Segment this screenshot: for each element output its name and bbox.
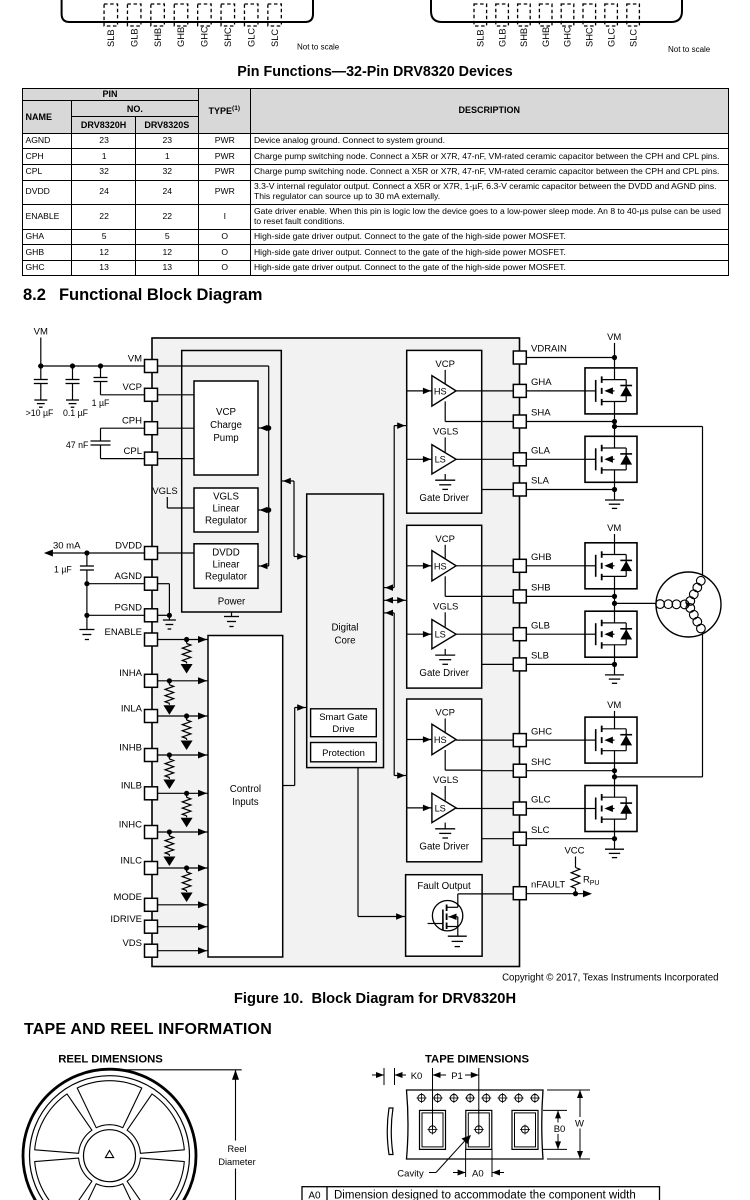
svg-text:Smart Gate: Smart Gate: [319, 712, 368, 723]
svg-text:GLB: GLB: [531, 620, 550, 631]
wire DVDD internal: [158, 552, 195, 554]
wire into LS (C): [407, 805, 432, 812]
svg-text:A0: A0: [472, 1169, 484, 1180]
pin DVDD: [115, 540, 157, 559]
wire LS output to GL pin: [456, 808, 513, 810]
ground (fault MOSFET): [448, 936, 467, 946]
sprocket holes: [417, 1093, 540, 1103]
wire VDRAIN to VM: [526, 357, 614, 359]
pulldown resistor (ENABLE): [181, 640, 193, 674]
svg-text:IDRIVE: IDRIVE: [110, 914, 142, 925]
svg-text:Gate Driver: Gate Driver: [419, 842, 469, 853]
wire HS output to GH pin: [456, 390, 513, 392]
svg-text:SHB: SHB: [531, 583, 551, 594]
wire GLC to Q6 gate: [526, 808, 585, 810]
svg-text:SLC: SLC: [628, 29, 638, 47]
svg-text:DVDD: DVDD: [212, 548, 239, 559]
svg-text:INLA: INLA: [121, 703, 143, 714]
svg-text:INLC: INLC: [120, 855, 142, 866]
pin pad GLB (U1): [127, 4, 141, 26]
svg-text:AGND: AGND: [115, 571, 143, 582]
wire HS to SH node (A): [445, 401, 482, 421]
svg-text:SLB: SLB: [531, 651, 549, 662]
wire INLA to control inputs: [158, 713, 209, 720]
pin GHA: [513, 377, 552, 397]
pin label SHC (U2): [585, 27, 595, 47]
LS driver amp (C): [432, 793, 456, 822]
package outline U1 (32-pin VQFN, bottom edge): [62, 0, 313, 22]
svg-text:VCP: VCP: [122, 382, 142, 393]
svg-text:REEL DIMENSIONS: REEL DIMENSIONS: [58, 1054, 163, 1066]
svg-text:Fault Output: Fault Output: [417, 881, 471, 892]
wire SLA / ground (A): [526, 482, 624, 508]
svg-text:GLC: GLC: [531, 795, 551, 806]
svg-text:SLB: SLB: [476, 29, 486, 47]
wire into LS (B): [407, 631, 432, 638]
ground (LS C): [435, 823, 455, 838]
svg-text:SLC: SLC: [531, 825, 550, 836]
wire VM internal rail to regulators: [158, 366, 272, 566]
VCP charge pump block: [194, 381, 258, 475]
svg-text:Gate Driver: Gate Driver: [419, 668, 469, 679]
pin nFAULT: [513, 879, 565, 899]
svg-text:Diameter: Diameter: [218, 1157, 255, 1167]
pin VDS: [122, 938, 157, 957]
capacitor C1 >10 uF: [26, 366, 54, 418]
wire into DVDD regulator: [258, 563, 269, 570]
svg-text:Reel: Reel: [228, 1144, 247, 1154]
pin pad SHC (U2): [583, 4, 596, 26]
wire IDRIVE to control inputs: [158, 923, 209, 930]
capacitor C3 1 uF (VM to VCP): [92, 366, 110, 408]
pin INLB: [121, 781, 158, 800]
wire SH sense: [482, 595, 514, 597]
wire CPH: [101, 428, 145, 441]
wire DVDD 30 mA output: [44, 541, 145, 557]
power MOSFET Q5 (high-side C): [585, 717, 637, 763]
pin label GLC (U2): [606, 28, 616, 47]
HS driver amp (C): [432, 724, 456, 755]
reel drawing: [23, 1069, 196, 1200]
wire HS to SH node (B): [445, 576, 482, 596]
wire AGND/PGND internal: [158, 584, 172, 620]
svg-text:nFAULT: nFAULT: [531, 879, 565, 890]
wire GLA to Q2 gate: [526, 458, 585, 460]
net label VGLS with wire: [152, 486, 194, 508]
power block: [182, 351, 282, 613]
svg-text:GLC: GLC: [246, 28, 256, 47]
gate driver block A: [407, 350, 482, 513]
svg-text:Gate Driver: Gate Driver: [419, 493, 469, 504]
svg-text:LS: LS: [435, 455, 446, 465]
svg-text:INHC: INHC: [119, 819, 142, 830]
wire CPL pin internal: [158, 458, 195, 460]
pin label GLB (U1): [129, 28, 139, 47]
wire VDS to control inputs: [158, 947, 209, 954]
pin SLA: [513, 476, 549, 496]
wire SL sense: [482, 838, 514, 840]
pin GLB: [513, 620, 550, 640]
svg-text:PU: PU: [590, 880, 600, 887]
pin pad GHB (U1): [174, 4, 188, 26]
svg-text:VM: VM: [128, 353, 142, 364]
svg-text:1 µF: 1 µF: [54, 565, 72, 575]
motor (3-phase BLDC): [656, 572, 721, 637]
wire protection to fault output: [358, 768, 406, 920]
capacitor C2 0.1 uF: [63, 366, 89, 418]
cavity 1: [420, 1110, 446, 1149]
package outline U2 (HTSSOP, bottom edge): [431, 0, 682, 22]
dimension P1: [433, 1068, 479, 1130]
LS driver amp (B): [432, 620, 456, 649]
ground (C2): [66, 400, 79, 407]
pin AGND: [115, 571, 158, 590]
wire LS output to GL pin: [456, 633, 513, 635]
net label VGLS (B): [433, 601, 458, 627]
svg-text:VDS: VDS: [122, 938, 142, 949]
pin PGND: [115, 603, 158, 622]
svg-text:Charge: Charge: [210, 420, 242, 431]
wire into VGLS regulator: [258, 507, 269, 514]
svg-text:K0: K0: [411, 1071, 423, 1082]
net label VCP (B): [435, 534, 455, 559]
svg-text:W: W: [575, 1119, 584, 1130]
svg-text:Digital: Digital: [332, 623, 359, 634]
net label VCP (A): [435, 359, 455, 384]
pulldown resistor (INLB): [181, 793, 193, 827]
ground (LS B): [435, 649, 455, 664]
wire INLB to control inputs: [158, 790, 209, 797]
wire SH sense: [482, 421, 514, 423]
capacitor C5 1 uF (DVDD): [54, 553, 94, 630]
LS driver amp (A): [432, 445, 456, 474]
svg-text:GHA: GHA: [531, 377, 552, 388]
motor coil phase A: [686, 576, 705, 605]
wire fault drain to nFAULT: [458, 893, 513, 895]
wire GHB to Q3 gate: [526, 565, 585, 567]
pin SLB: [513, 651, 549, 671]
svg-text:TAPE DIMENSIONS: TAPE DIMENSIONS: [425, 1054, 529, 1066]
svg-text:GLA: GLA: [531, 446, 551, 457]
svg-text:Regulator: Regulator: [205, 516, 248, 527]
open-drain MOSFET Q7 (fault): [428, 894, 463, 936]
svg-text:30 mA: 30 mA: [53, 541, 81, 552]
wire INLC to control inputs: [158, 865, 209, 872]
dimension K0: [372, 1068, 422, 1085]
wire MODE to control inputs: [158, 901, 209, 908]
pin VDRAIN: [513, 344, 567, 364]
pin label SLB (U2): [476, 29, 486, 47]
DVDD linear regulator block: [194, 544, 258, 589]
HS driver amp (A): [432, 376, 456, 407]
pin label SLB (U1): [106, 29, 116, 47]
wire GHA to Q1 gate: [526, 390, 585, 392]
wire control inputs to digital core: [283, 704, 307, 785]
pin SHB: [513, 583, 550, 603]
pin pad GLC (U2): [605, 4, 618, 26]
svg-text:VDRAIN: VDRAIN: [531, 344, 567, 355]
svg-text:GLC: GLC: [606, 28, 616, 47]
wire GHC to Q5 gate: [526, 739, 585, 741]
pin label SHB (U2): [519, 28, 529, 47]
wire power to digital core: [281, 478, 306, 560]
svg-text:VGLS: VGLS: [433, 426, 458, 437]
net label VCP (C): [435, 708, 455, 733]
svg-text:1 µF: 1 µF: [92, 398, 110, 408]
HS driver amp (B): [432, 551, 456, 582]
power MOSFET Q3 (high-side B): [585, 543, 637, 589]
fault output block: [406, 875, 483, 957]
ground (LS A): [435, 474, 455, 489]
pin pad SLB (U2): [474, 4, 487, 26]
svg-text:GHC: GHC: [200, 26, 210, 47]
svg-text:Control: Control: [230, 784, 261, 795]
svg-text:SLB: SLB: [106, 29, 116, 47]
wire VCP: [101, 394, 145, 396]
pin VCP: [122, 382, 157, 401]
tape body: [407, 1090, 544, 1159]
svg-text:Core: Core: [335, 636, 356, 647]
gate driver block C: [407, 699, 482, 862]
svg-text:Power: Power: [218, 597, 246, 608]
dimension W: [547, 1090, 590, 1159]
wire HS to SH node (C): [445, 750, 482, 770]
pin GLC: [513, 795, 550, 815]
svg-text:>10 µF: >10 µF: [26, 408, 54, 418]
pin label GLC (U1): [246, 28, 256, 47]
pin IDRIVE: [110, 914, 157, 933]
power MOSFET Q6 (low-side C): [585, 786, 637, 832]
wire HS output to GH pin: [456, 739, 513, 741]
svg-text:VCP: VCP: [435, 359, 455, 370]
wire digital core to gate driver A: [384, 422, 407, 590]
svg-text:Linear: Linear: [213, 504, 241, 515]
ground (AGND/PGND internal): [163, 620, 176, 629]
pin pad SHB (U2): [518, 4, 531, 26]
power MOSFET Q2 (low-side A): [585, 436, 637, 482]
A0 definition row: [302, 1187, 660, 1200]
wire AGND external: [84, 581, 144, 586]
svg-text:47 nF: 47 nF: [66, 440, 89, 450]
svg-text:SHC: SHC: [223, 27, 233, 47]
svg-text:INHA: INHA: [119, 668, 142, 679]
svg-text:Pump: Pump: [213, 433, 238, 444]
svg-text:Copyright © 2017, Texas Instru: Copyright © 2017, Texas Instruments Inco…: [502, 973, 718, 984]
svg-text:LS: LS: [435, 630, 446, 640]
svg-text:SHA: SHA: [531, 408, 551, 419]
wire CPH pin internal: [158, 427, 195, 429]
svg-text:VM: VM: [34, 327, 48, 338]
svg-text:SHC: SHC: [585, 27, 595, 47]
svg-text:SLA: SLA: [531, 476, 550, 487]
wire INHA to control inputs: [158, 677, 209, 684]
svg-text:Dimension designed to accommod: Dimension designed to accommodate the co…: [334, 1190, 636, 1200]
pin label SLC (U2): [628, 29, 638, 47]
svg-text:MODE: MODE: [114, 892, 143, 903]
wire SH sense: [482, 770, 514, 772]
wire into HS (B): [407, 563, 432, 570]
wire into LS (A): [407, 456, 432, 463]
note: Not to scale (right): [668, 45, 711, 54]
VGLS linear regulator block: [194, 488, 258, 532]
svg-text:VGLS: VGLS: [433, 775, 458, 786]
svg-text:PGND: PGND: [115, 603, 143, 614]
supply VM (bridge C): [607, 700, 621, 717]
pin label GHC (U1): [200, 26, 210, 47]
wire digital core to gate driver B (bidirectional): [384, 597, 407, 604]
wire SL sense: [482, 663, 514, 665]
svg-text:SLC: SLC: [270, 29, 280, 47]
pin INHC: [119, 819, 158, 838]
pin GHB: [513, 552, 551, 572]
ground (C1): [34, 400, 47, 407]
wire ENABLE to control inputs: [158, 636, 209, 643]
pin CPL: [124, 446, 158, 465]
ground below power block: [224, 612, 239, 627]
dimension A0: [453, 1149, 504, 1179]
pin GLA: [513, 446, 550, 466]
svg-text:VCC: VCC: [564, 846, 584, 857]
node SHB: [526, 589, 617, 611]
svg-text:DVDD: DVDD: [115, 540, 142, 551]
wire SLB / ground (B): [526, 657, 624, 683]
net label VGLS (A): [433, 426, 458, 452]
pin label SHC (U1): [223, 27, 233, 47]
cavity 3: [512, 1110, 538, 1149]
wire CPL: [101, 458, 145, 460]
pin pad SHC (U1): [221, 4, 235, 26]
supply VM (top left): [34, 327, 48, 367]
svg-text:Not to scale: Not to scale: [668, 45, 711, 54]
svg-text:0.1 µF: 0.1 µF: [63, 408, 89, 418]
ground (external): [79, 630, 94, 640]
pull-up resistor RPU: [564, 846, 599, 894]
pin pad SHB (U1): [151, 4, 165, 26]
pin INLC: [120, 855, 157, 874]
svg-text:ENABLE: ENABLE: [105, 627, 143, 638]
pin pad GHB (U2): [539, 4, 552, 26]
motor coil phase C: [686, 604, 705, 633]
wire INHC to control inputs: [158, 829, 209, 836]
wire into HS (C): [407, 736, 432, 743]
svg-text:CPH: CPH: [122, 416, 142, 427]
svg-text:HS: HS: [434, 735, 447, 745]
wire LS output to GL pin: [456, 458, 513, 460]
svg-text:VGLS: VGLS: [152, 486, 177, 497]
pin label GHB (U1): [176, 27, 186, 47]
wire phase C to motor: [615, 632, 703, 777]
svg-text:SHB: SHB: [153, 28, 163, 47]
svg-text:Linear: Linear: [213, 560, 241, 571]
svg-text:Protection: Protection: [322, 748, 365, 759]
svg-text:VGLS: VGLS: [433, 601, 458, 612]
reel diameter dimension: [124, 1070, 261, 1200]
wire digital core to gate driver C: [384, 610, 407, 779]
control inputs block: [208, 636, 283, 958]
tape leader strip: [387, 1108, 393, 1155]
pin CPH: [122, 416, 158, 435]
pin pad GHC (U1): [198, 4, 212, 26]
pin pad GHC (U2): [561, 4, 574, 26]
svg-text:GHC: GHC: [531, 726, 552, 737]
svg-text:SHB: SHB: [519, 28, 529, 47]
pin SHC: [513, 757, 551, 777]
svg-text:GHC: GHC: [563, 26, 573, 47]
wire SLC / ground (C): [526, 832, 624, 858]
pin INHB: [119, 742, 157, 761]
svg-text:VM: VM: [607, 700, 621, 711]
wire SL sense: [482, 489, 514, 491]
svg-text:LS: LS: [435, 803, 446, 813]
pin GHC: [513, 726, 552, 746]
pin label SHB (U1): [153, 28, 163, 47]
svg-text:A0: A0: [308, 1191, 321, 1200]
pin SLC: [513, 825, 549, 845]
pin VM: [128, 353, 158, 372]
svg-text:VCP: VCP: [435, 708, 455, 719]
motor coil phase B: [656, 600, 689, 609]
pin ENABLE: [105, 627, 158, 646]
svg-text:GLB: GLB: [129, 28, 139, 47]
wire phase A to motor: [615, 427, 703, 578]
power MOSFET Q4 (low-side B): [585, 611, 637, 657]
pin INLA: [121, 703, 158, 722]
pin label GLB (U2): [497, 28, 507, 47]
supply VM (bridge A): [607, 332, 621, 368]
svg-text:VM: VM: [607, 523, 621, 534]
pulldown resistor (INHB): [163, 755, 175, 789]
pin pad SLC (U2): [627, 4, 640, 26]
pulldown resistor (INLA): [181, 716, 193, 750]
svg-text:VCP: VCP: [435, 534, 455, 545]
pin SHA: [513, 408, 551, 428]
svg-text:GHB: GHB: [541, 27, 551, 47]
pulldown resistor (INHC): [163, 832, 175, 866]
svg-text:GLB: GLB: [497, 28, 507, 47]
pulldown resistor (INLC): [181, 868, 193, 902]
svg-text:SHC: SHC: [531, 757, 551, 768]
svg-text:P1: P1: [451, 1071, 463, 1082]
svg-text:CPL: CPL: [124, 446, 142, 457]
smart gate drive block: [311, 709, 377, 737]
protection block: [311, 743, 377, 762]
svg-text:Drive: Drive: [332, 724, 354, 735]
node SHA: [526, 414, 617, 436]
digital core block: [307, 494, 384, 768]
node SHC: [526, 763, 617, 785]
svg-text:GHB: GHB: [176, 27, 186, 47]
pin label SLC (U1): [270, 29, 280, 47]
svg-text:VCP: VCP: [216, 407, 236, 418]
pin label GHB (U2): [541, 27, 551, 47]
pin pad GLB (U2): [496, 4, 509, 26]
pin INHA: [119, 668, 157, 687]
pin label GHC (U2): [563, 26, 573, 47]
pulldown resistor (INHA): [163, 681, 175, 715]
svg-text:Not to scale: Not to scale: [297, 43, 340, 52]
wire phase B to motor: [615, 602, 657, 604]
svg-text:INHB: INHB: [119, 742, 142, 753]
svg-text:INLB: INLB: [121, 781, 142, 792]
wire HS output to GH pin: [456, 565, 513, 567]
wire VCP pin internal: [158, 394, 195, 396]
dimension B0: [543, 1110, 568, 1149]
net label VGLS (C): [433, 775, 458, 801]
label cavity with leader: [397, 1135, 471, 1180]
wire GLB to Q4 gate: [526, 633, 585, 635]
svg-text:VGLS: VGLS: [213, 492, 239, 503]
svg-text:HS: HS: [434, 561, 447, 571]
